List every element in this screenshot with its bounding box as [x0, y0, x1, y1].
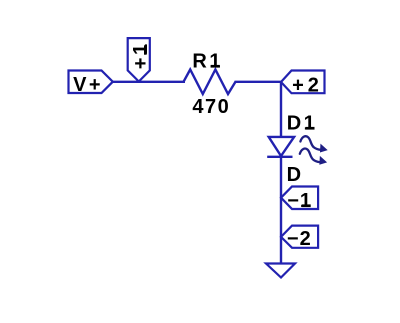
svg-text:−1: −1 [287, 190, 312, 212]
LED D1 (diode triangle + cathode bar) [267, 137, 294, 157]
wire from resistor to junction [235, 81, 282, 83]
port +1 (points down onto wire) [128, 38, 153, 81]
port -1 (points left onto wire) [281, 187, 318, 213]
port +2 (points left onto junction) [281, 71, 325, 97]
port -2 (points left onto wire) [281, 226, 318, 251]
svg-text:D1: D1 [287, 113, 318, 135]
svg-text:+1: +1 [130, 41, 152, 69]
resistor R1 zigzag [184, 70, 236, 95]
svg-text:+2: +2 [292, 74, 323, 96]
LED light emission arrows [300, 136, 327, 164]
svg-text:D: D [287, 164, 301, 186]
power flag V+ [69, 71, 113, 97]
svg-text:R1: R1 [192, 51, 223, 73]
ground [266, 264, 295, 278]
svg-text:−2: −2 [287, 228, 312, 250]
wire from LED down to ground [280, 157, 282, 264]
wire from V+ to resistor [113, 81, 185, 83]
svg-text:470: 470 [192, 96, 230, 118]
wire from junction down to LED [280, 82, 282, 137]
svg-text:V+: V+ [73, 74, 103, 96]
